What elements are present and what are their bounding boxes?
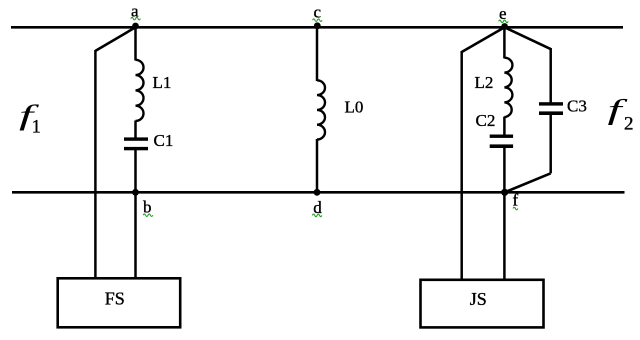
node a: [131, 2, 141, 30]
capacitor C2: [476, 111, 514, 148]
svg-text:L1: L1: [153, 73, 172, 92]
svg-text:FS: FS: [105, 289, 125, 309]
svg-text:2: 2: [624, 114, 634, 135]
wire e to L2: [503, 27, 506, 58]
box FS: [58, 278, 181, 327]
node b: [132, 189, 153, 217]
wire top bus: [11, 26, 623, 29]
node c: [313, 3, 323, 30]
node f: [501, 189, 518, 210]
capacitor C1: [124, 131, 173, 150]
svg-text:L0: L0: [345, 98, 364, 117]
label f2: [608, 93, 634, 134]
wire left vertical to JS: [460, 51, 463, 281]
wire C3 top vertical: [549, 48, 552, 103]
box JS: [421, 280, 544, 328]
wire diagonal e left: [462, 27, 505, 52]
svg-text:c: c: [314, 3, 322, 22]
svg-text:f: f: [513, 191, 519, 210]
wire a to L1: [134, 27, 137, 60]
inductor L1: [136, 60, 172, 121]
wire bottom bus: [12, 191, 625, 194]
wire L0 to d: [316, 139, 319, 192]
svg-text:C2: C2: [476, 111, 496, 130]
svg-text:JS: JS: [470, 289, 487, 309]
wire diagonal to f: [505, 173, 551, 192]
label f1: [19, 99, 41, 138]
wire L1 to C1: [134, 121, 137, 139]
inductor L2: [475, 58, 513, 117]
wire C2 to f and JS: [503, 148, 506, 282]
node d: [312, 189, 322, 217]
wire L2 to C2: [503, 117, 506, 136]
node e: [499, 4, 509, 30]
wire diagonal e right: [505, 27, 551, 49]
capacitor C3: [539, 97, 587, 116]
svg-text:L2: L2: [475, 73, 494, 92]
wire left vertical to FS: [94, 50, 97, 280]
wire C3 bottom vertical: [549, 115, 552, 174]
inductor L0: [317, 80, 363, 139]
wire diagonal from a: [95, 27, 135, 51]
svg-text:C1: C1: [154, 131, 174, 150]
wire c to L0: [316, 27, 319, 81]
wire C1 to b and FS: [134, 150, 137, 280]
svg-text:1: 1: [32, 117, 42, 138]
svg-text:C3: C3: [567, 97, 587, 116]
